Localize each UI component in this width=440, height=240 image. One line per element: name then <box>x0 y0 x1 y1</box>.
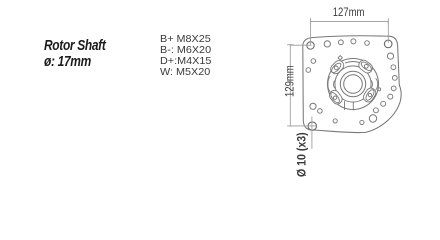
corner hole TR <box>384 40 392 48</box>
medium hole bottom-left <box>310 103 316 109</box>
medium hole top <box>324 41 330 47</box>
hub left web <box>328 77 335 92</box>
corner hole TL <box>307 42 314 49</box>
hub bottom tab <box>345 102 354 111</box>
hub right web <box>371 78 378 89</box>
svg-text:Ø 10 (x3): Ø 10 (x3) <box>296 132 309 177</box>
bore inner circle <box>344 75 363 94</box>
medium hole right <box>387 53 393 59</box>
dimension 127mm <box>311 19 389 46</box>
rotor shaft label <box>44 38 106 70</box>
lobe eye bottom-right <box>364 88 375 101</box>
lobe pocket bottom-right <box>362 86 378 103</box>
bore outer circle <box>340 71 365 96</box>
lobe eye top-right <box>360 60 373 72</box>
hub top inner scallop arc <box>345 62 360 63</box>
lobe pocket bottom-left <box>328 89 344 106</box>
corner hole BL <box>308 122 316 130</box>
lobe pocket top-right <box>357 58 374 74</box>
lobe pocket top-left <box>329 59 346 76</box>
big hole bottom-right <box>369 115 376 122</box>
hub outer scallop circle <box>328 59 379 110</box>
hub ring <box>335 66 371 102</box>
small holes ring <box>306 39 397 125</box>
tiny diamond boss <box>338 56 342 60</box>
svg-text:129mm: 129mm <box>284 65 297 97</box>
lobe eye top-left <box>330 62 342 75</box>
leader line for hole callout <box>311 117 313 149</box>
lobe eye bottom-left <box>329 91 341 104</box>
plate outline <box>303 36 401 133</box>
tiny circle boss <box>378 88 381 91</box>
svg-text:127mm: 127mm <box>333 6 365 19</box>
terminal spec list <box>160 34 211 78</box>
dimension 129mm <box>288 45 317 126</box>
